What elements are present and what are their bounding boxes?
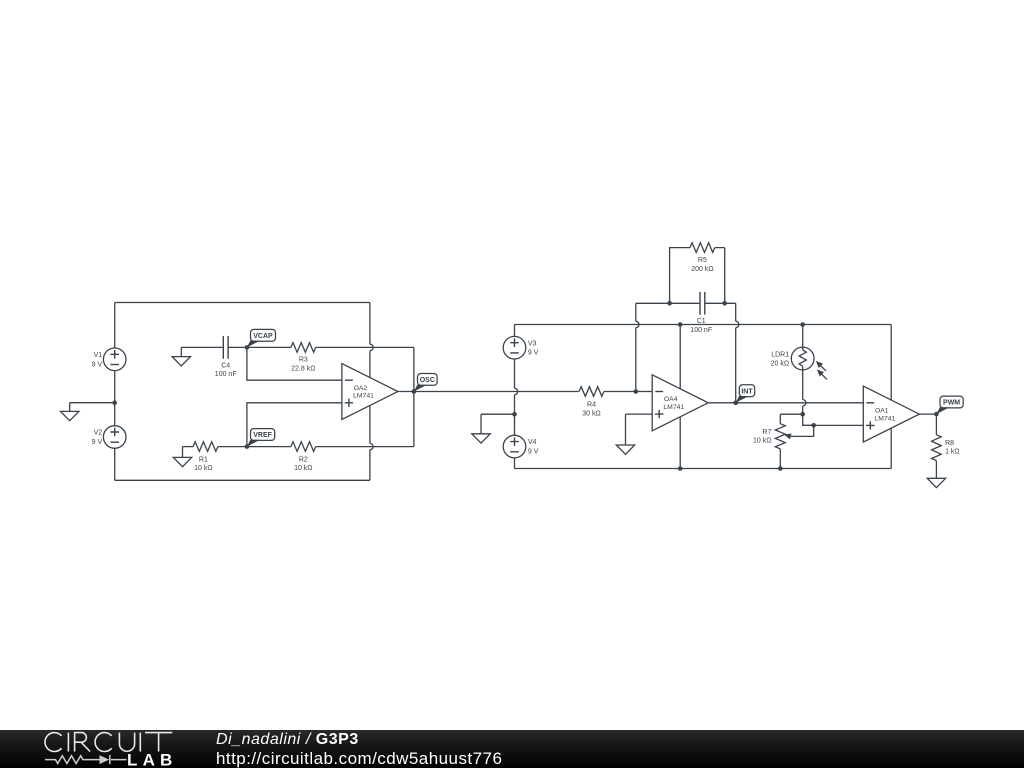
svg-text:9 V: 9 V	[92, 361, 103, 368]
svg-text:1 kΩ: 1 kΩ	[945, 448, 960, 455]
svg-text:LM741: LM741	[663, 404, 684, 411]
svg-text:10 kΩ: 10 kΩ	[753, 438, 771, 445]
svg-text:100 nF: 100 nF	[215, 371, 237, 378]
svg-text:OA2: OA2	[354, 385, 368, 392]
svg-text:9 V: 9 V	[528, 449, 539, 456]
svg-text:200 kΩ: 200 kΩ	[691, 266, 713, 273]
svg-text:10 kΩ: 10 kΩ	[294, 465, 312, 472]
svg-text:PWM: PWM	[943, 400, 960, 407]
svg-text:OA1: OA1	[875, 407, 889, 414]
svg-text:V2: V2	[94, 430, 103, 437]
svg-text:R5: R5	[698, 257, 707, 264]
svg-text:C1: C1	[697, 318, 706, 325]
svg-text:V1: V1	[94, 352, 103, 359]
svg-text:R2: R2	[299, 456, 308, 463]
svg-text:LM741: LM741	[875, 415, 896, 422]
svg-text:INT: INT	[741, 388, 753, 395]
svg-text:10 kΩ: 10 kΩ	[194, 465, 212, 472]
svg-text:VCAP: VCAP	[253, 333, 273, 340]
svg-text:OA4: OA4	[664, 396, 678, 403]
svg-text:30 kΩ: 30 kΩ	[582, 410, 600, 417]
svg-text:R3: R3	[299, 357, 308, 364]
svg-text:9 V: 9 V	[92, 439, 103, 446]
svg-text:V4: V4	[528, 439, 537, 446]
svg-text:LAB: LAB	[127, 751, 178, 768]
svg-text:R8: R8	[945, 440, 954, 447]
svg-text:VREF: VREF	[253, 432, 272, 439]
svg-text:9 V: 9 V	[528, 350, 539, 357]
svg-text:LM741: LM741	[353, 393, 374, 400]
svg-text:R7: R7	[763, 429, 772, 436]
svg-text:20 kΩ: 20 kΩ	[771, 360, 789, 367]
svg-text:R4: R4	[587, 402, 596, 409]
svg-text:C4: C4	[221, 362, 230, 369]
svg-text:V3: V3	[528, 340, 537, 347]
svg-text:OSC: OSC	[420, 377, 435, 384]
svg-text:22.8 kΩ: 22.8 kΩ	[291, 366, 315, 373]
svg-text:100 nF: 100 nF	[690, 327, 712, 334]
svg-text:LDR1: LDR1	[771, 352, 789, 359]
svg-text:R1: R1	[199, 456, 208, 463]
